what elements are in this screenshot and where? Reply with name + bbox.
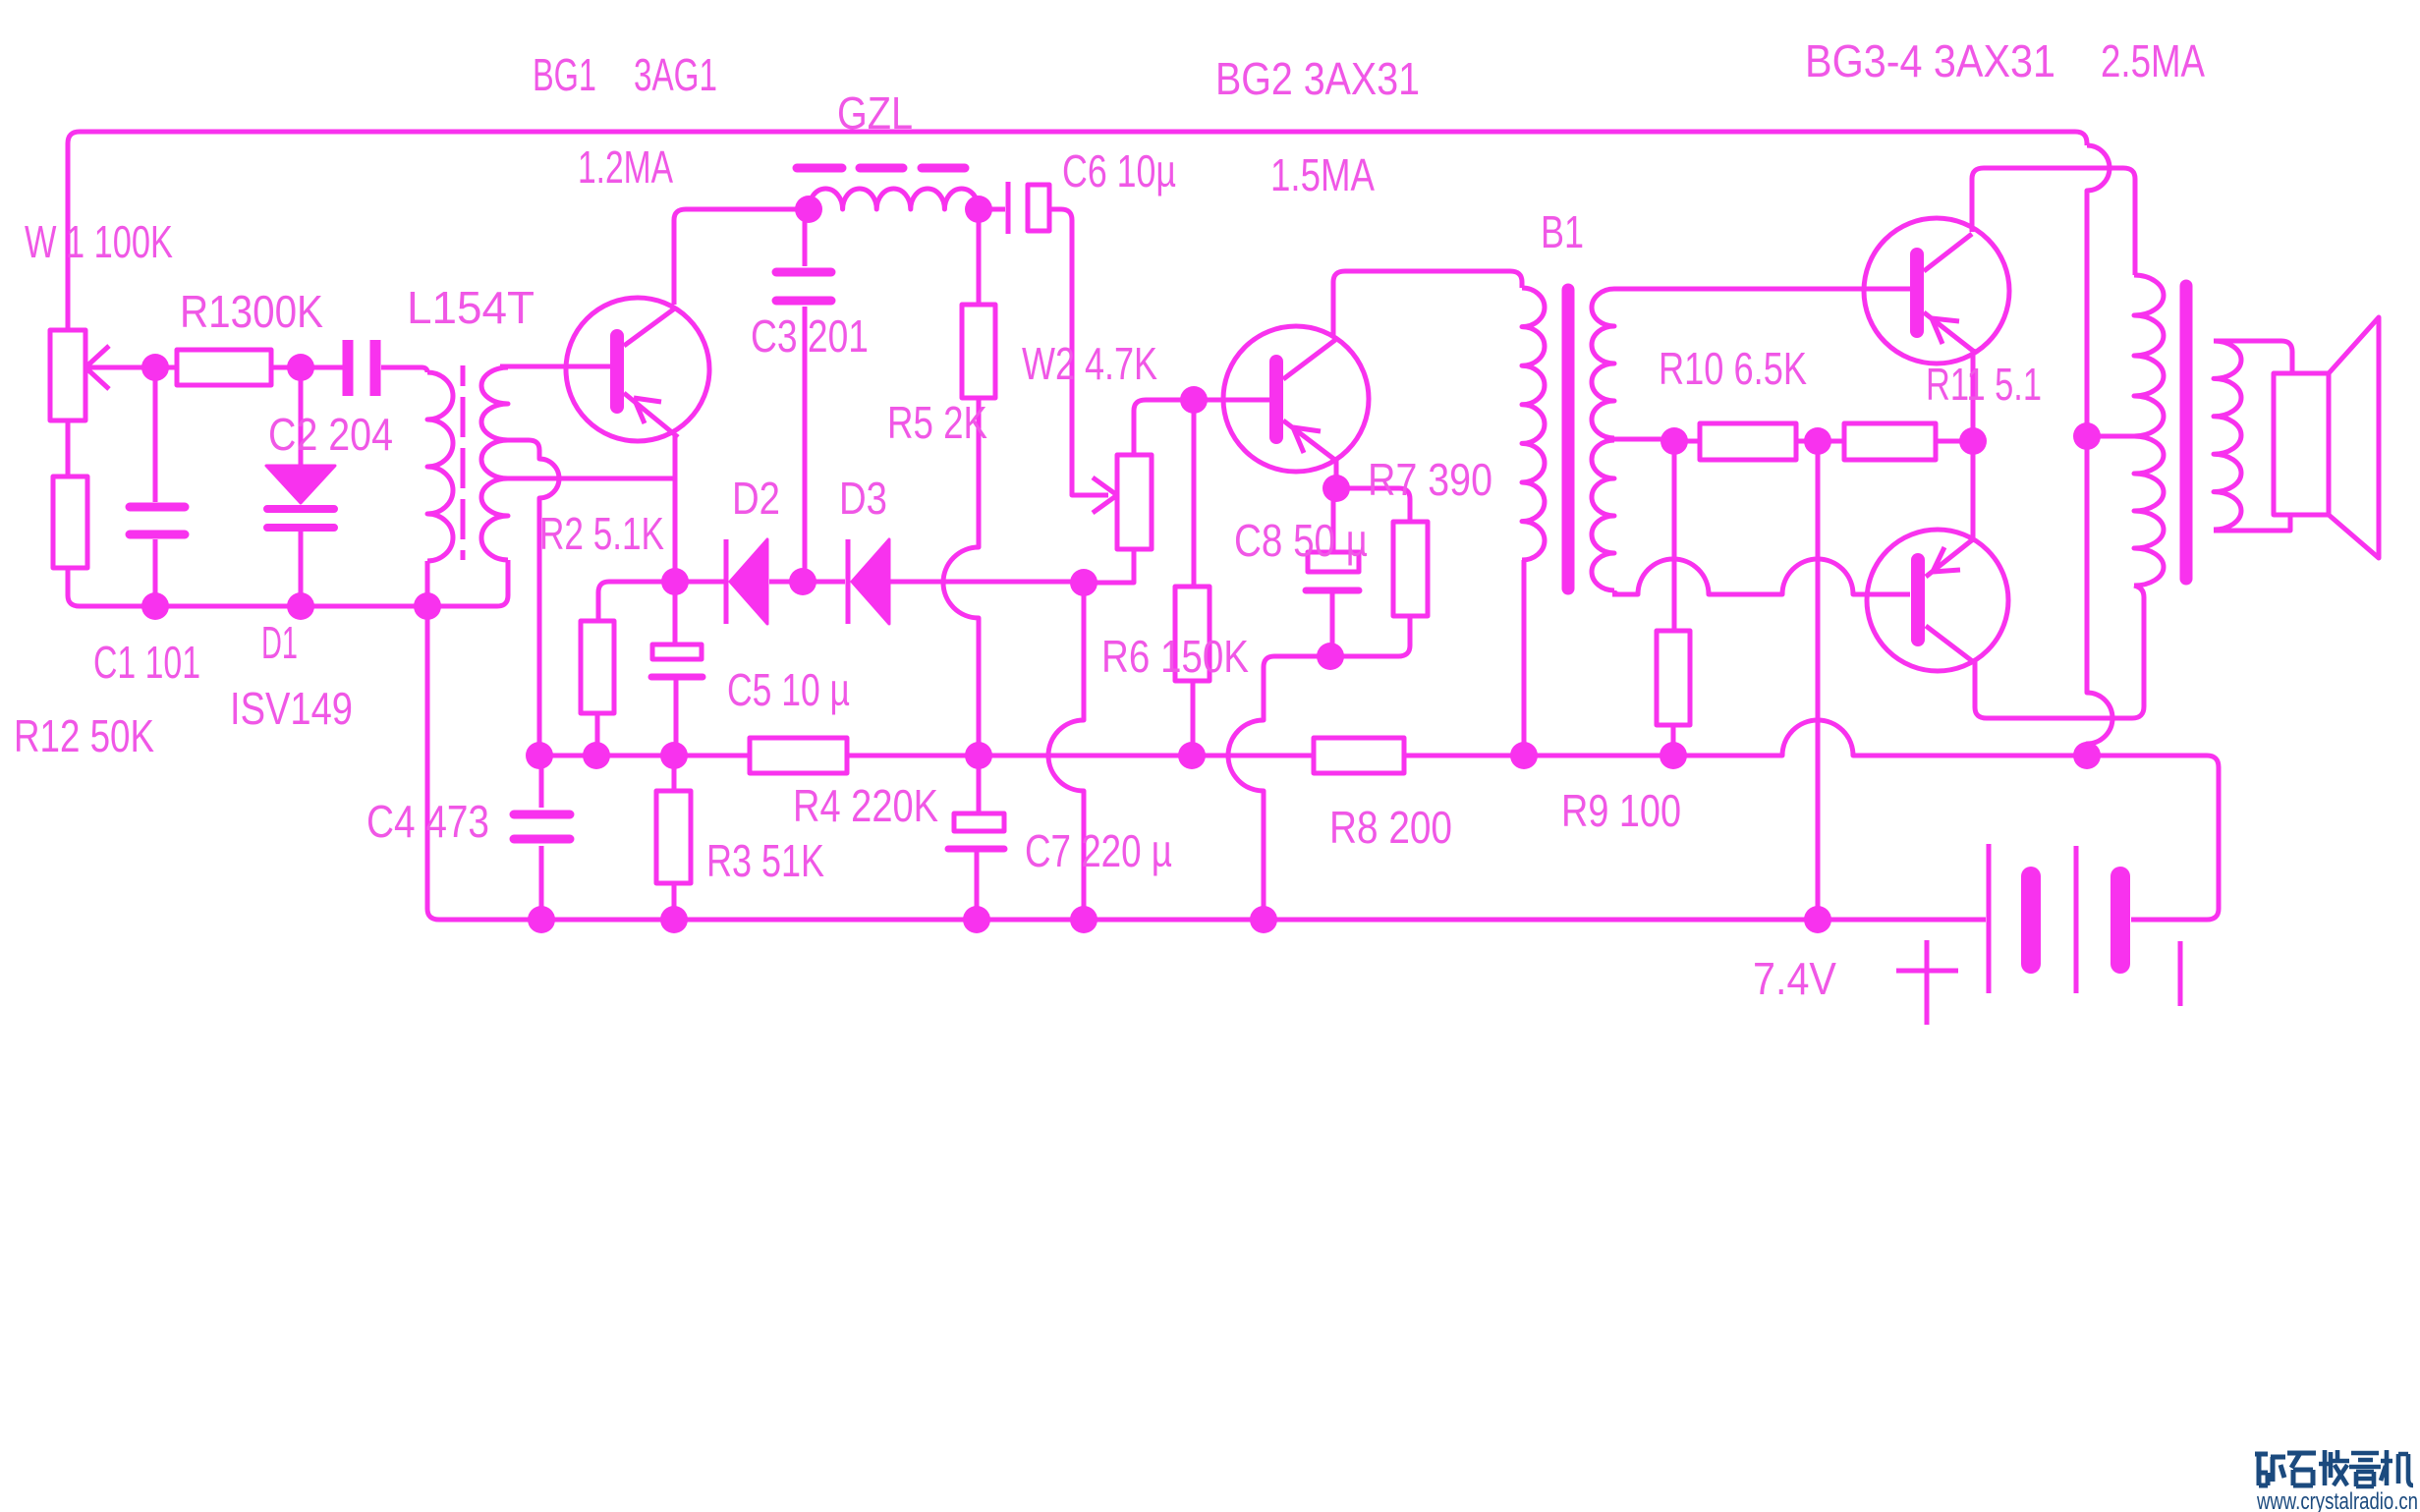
svg-text:W 1 100K: W 1 100K — [25, 216, 173, 267]
svg-text:R3 51K: R3 51K — [706, 835, 824, 886]
svg-text:D2: D2 — [732, 473, 780, 524]
svg-text:R6 150K: R6 150K — [1101, 631, 1249, 682]
svg-text:R12 50K: R12 50K — [14, 710, 154, 761]
svg-text:C5 10 µ: C5 10 µ — [727, 664, 850, 715]
svg-text:7.4V: 7.4V — [1753, 953, 1836, 1004]
svg-text:C1 101: C1 101 — [93, 637, 200, 688]
svg-text:C4 473: C4 473 — [366, 796, 489, 847]
svg-text:www.crystalradio.cn: www.crystalradio.cn — [2256, 1488, 2418, 1512]
svg-text:C8 50 µ: C8 50 µ — [1234, 515, 1368, 566]
svg-text:BG3-4 3AX31: BG3-4 3AX31 — [1805, 35, 2055, 86]
svg-text:R5 2K: R5 2K — [887, 397, 987, 448]
svg-text:GZL: GZL — [837, 87, 913, 139]
svg-text:R8 200: R8 200 — [1329, 802, 1452, 853]
svg-text:C7 220 µ: C7 220 µ — [1025, 825, 1172, 876]
svg-text:D3: D3 — [839, 473, 887, 524]
svg-text:BG2 3AX31: BG2 3AX31 — [1215, 53, 1420, 104]
svg-text:1.5MA: 1.5MA — [1270, 149, 1375, 200]
svg-text:BG1: BG1 — [533, 49, 596, 100]
svg-text:3AG1: 3AG1 — [634, 49, 717, 100]
svg-text:1.2MA: 1.2MA — [578, 141, 673, 193]
svg-text:R7 390: R7 390 — [1368, 454, 1492, 505]
svg-text:R10 6.5K: R10 6.5K — [1659, 343, 1807, 394]
svg-text:W2 4.7K: W2 4.7K — [1022, 338, 1157, 389]
svg-text:2.5MA: 2.5MA — [2101, 35, 2205, 86]
svg-text:C3 201: C3 201 — [751, 310, 869, 362]
svg-text:C6 10µ: C6 10µ — [1062, 145, 1176, 196]
svg-text:R2 5.1K: R2 5.1K — [539, 508, 664, 559]
svg-text:ISV149: ISV149 — [230, 683, 353, 734]
svg-text:L154T: L154T — [407, 282, 535, 333]
svg-text:D1: D1 — [261, 617, 298, 668]
svg-text:C2 204: C2 204 — [268, 409, 393, 460]
svg-text:R11 5.1: R11 5.1 — [1926, 359, 2042, 410]
svg-text:R1300K: R1300K — [180, 286, 323, 337]
svg-text:R4 220K: R4 220K — [793, 780, 938, 831]
svg-text:B1: B1 — [1541, 206, 1584, 257]
svg-text:R9 100: R9 100 — [1561, 785, 1681, 836]
